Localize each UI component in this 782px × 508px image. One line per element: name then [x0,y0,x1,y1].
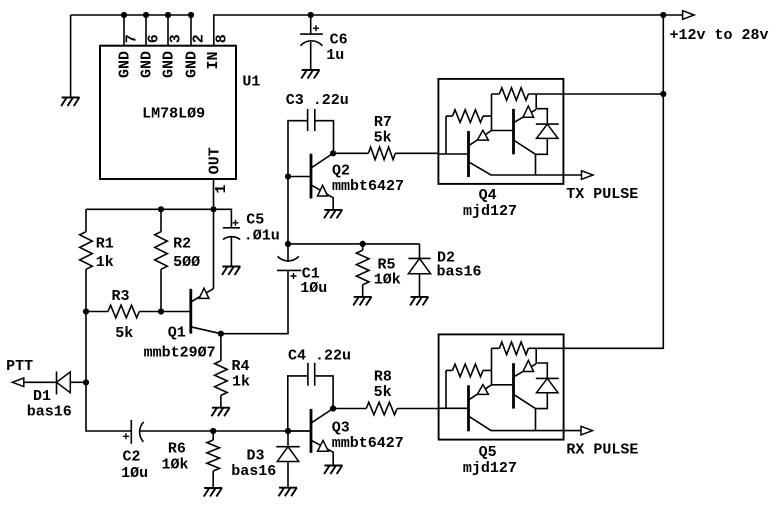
arrow PTT input [12,378,23,387]
wire emitter node to diode top (Q4) [536,109,547,124]
junction +12v right rail tap [660,12,666,18]
wire diode bottom lead (Q4) [536,138,548,154]
junction R5 top [360,241,366,247]
capacitor C5 polarity + [233,220,239,226]
resistor base-emitter internal (Q5) [446,364,492,377]
svg-text:mmbt6427: mmbt6427 [332,178,404,195]
wire C5 bottom lead [230,236,232,267]
wire U1 pin2 stub [190,15,192,46]
op-amp U1 LM78L09 box [100,46,236,179]
emitter arrow Q1 [199,288,209,298]
svg-text:R4: R4 [232,358,250,375]
resistor R4 [215,334,228,408]
transistor Q3 bar [310,409,313,453]
emitter arrow Q2 [318,185,328,196]
svg-text:R1: R1 [96,235,114,252]
svg-text:GND: GND [161,51,178,78]
diode D2 triangle [408,258,430,273]
svg-text:bas16: bas16 [27,404,72,421]
svg-text:mjd127: mjd127 [463,203,517,220]
wire C2 to R6 node [139,430,213,432]
wire T2 emitter node up to resistor (Q5) [535,348,537,363]
svg-text:5k: 5k [374,384,392,401]
wire Q1 emitter [191,289,214,302]
wire U1 pin7 stub [123,15,125,46]
svg-text:TX PULSE: TX PULSE [566,186,638,203]
resistor base-emitter internal (Q4) [446,110,492,123]
wire C3 left lead [288,121,308,177]
diode internal triangle (Q4) [537,124,559,138]
svg-text:5k: 5k [115,325,133,342]
wire C6 top lead [310,15,312,34]
diode D1 triangle [57,372,71,393]
svg-text:U1: U1 [242,74,260,91]
svg-text:+12v to 28v: +12v to 28v [670,27,769,44]
wire T2 collector (Q5) [514,394,536,430]
capacitor C6 curved plate [301,41,323,46]
svg-text:bas16: bas16 [437,263,482,280]
emitter arrow T1 (Q5) [477,385,488,395]
resistor R3 [86,305,161,318]
transistor T2 bar (Q4) [512,109,515,154]
wire internal node vertical (Q4) [491,94,493,131]
svg-text:RX PULSE: RX PULSE [566,441,638,458]
svg-text:C2: C2 [123,449,141,466]
junction C1 top node [285,241,291,247]
resistor R1 [80,209,93,311]
wire D2 leads [419,244,421,297]
svg-text:R2: R2 [173,235,191,252]
wire OUT node to R1 R2 C5 [86,209,231,228]
junction C6 tap [308,12,314,18]
ground G6 (D3) [279,487,297,489]
resistor emitter internal (Q4) [492,88,529,101]
svg-text:7: 7 [123,34,140,43]
wire T2 emitter node up to resistor (Q4) [535,94,537,109]
ground G2 (C6) [302,69,320,71]
wire Q2 collector [311,153,333,168]
emitter arrow T1 (Q4) [477,130,488,140]
wire Q3 emitter [311,440,333,465]
arrow RX PULSE output [581,426,593,435]
wire input to T1 base (Q5) [439,407,469,409]
svg-text:R6: R6 [168,440,186,457]
wire ground rail top-left [71,14,191,16]
wire C3 right lead [315,121,334,154]
junction Q1 collector node [218,331,224,337]
wire emitter node to diode top (Q5) [536,363,547,378]
svg-text:mmbt29Ø7: mmbt29Ø7 [144,345,216,362]
svg-text:1Øk: 1Øk [162,456,189,473]
junction pin7 rail [121,12,127,18]
wire C1 top lead [287,244,289,262]
resistor R6 [207,431,220,488]
wire T2 base (Q5) [492,384,514,386]
ground G4 (R4) [212,407,230,409]
wire C1 node to R5 D2 [288,243,420,245]
emitter arrow T2 (Q4) [523,106,534,117]
junction pin2 rail [188,12,194,18]
svg-text:5ØØ: 5ØØ [173,254,200,271]
wire U1 pin6 stub [145,15,147,46]
wire T1 emitter (Q4) [469,131,492,146]
wire Q1 base [161,311,191,313]
ground G1 (input common) [62,97,80,99]
svg-text:GND: GND [117,51,134,78]
wire C6 bottom lead [310,42,312,70]
svg-text:GND: GND [139,51,156,78]
wire T2 emitter (Q5) [513,364,536,377]
wire T1 collector to output (Q4) [469,162,582,175]
svg-text:1Øk: 1Øk [374,272,401,289]
wire left ground drop [70,15,72,98]
arrow TX PULSE output [582,171,594,180]
junction R6 top [210,428,216,434]
wire T2 collector (Q4) [514,140,536,175]
junction pin3 rail [165,12,171,18]
resistor emitter internal (Q5) [492,342,529,355]
svg-text:Q1: Q1 [168,324,186,341]
svg-text:1: 1 [213,184,230,193]
ground G10 (Q3 emitter) [325,465,343,467]
junction Q2 collector node [330,150,336,156]
junction Q2 base node [285,173,291,179]
junction pin6 rail [143,12,149,18]
wire Q3 base [288,430,311,432]
diode D3 cathode bar [276,446,299,448]
resistor R2 [155,209,168,311]
wire left vertical R1-D1-C2 [86,312,131,432]
ground G3 (C5) [222,266,240,268]
svg-text:bas16: bas16 [231,463,276,480]
wire Q5 supply to rail [528,347,563,349]
wire input to T1 base (Q4) [439,153,469,155]
wire C4 left lead [288,376,308,431]
svg-text:1Øu: 1Øu [300,280,327,297]
junction R2 bottom node [158,308,164,314]
svg-text:3: 3 [167,34,184,43]
wire diode bottom lead (Q5) [536,393,548,409]
svg-text:C5: C5 [246,212,264,229]
resistor R8 [333,402,439,415]
wire U1 pin8 to +12v rail [214,15,683,46]
svg-text:1Øu: 1Øu [121,465,148,482]
junction R2 top [158,206,164,212]
ground G5 (R6) [204,487,222,489]
wire R6 node to D3 node [213,430,311,432]
wire D1 to node [70,381,86,383]
svg-text:1k: 1k [232,373,250,390]
capacitor C5 plate+ [223,227,240,229]
capacitor C1 polarity + [291,273,297,279]
junction D1 node [83,379,89,385]
diode D2 cathode bar [408,257,430,259]
wire C4 right lead [315,376,333,409]
transistor Q1 bar [189,289,192,334]
transistor T2 bar (Q5) [512,363,515,408]
capacitor C5 curved plate [223,237,240,240]
junction R1 bottom node [83,308,89,314]
capacitor C6 plate+ [300,33,323,35]
transistor Q4 box [438,79,563,184]
transistor T1 bar (Q4) [467,131,470,177]
svg-text:Q5: Q5 [479,444,497,461]
svg-text:OUT: OUT [207,147,224,174]
wire Q3 collector [311,409,333,424]
diode internal cathode bar (Q5) [536,377,559,379]
svg-text:C6: C6 [330,32,348,49]
wire Q2 emitter [311,185,333,210]
ground G7 (Q2 emitter) [324,209,342,211]
wire T2 emitter (Q4) [513,109,536,122]
svg-text:5k: 5k [374,130,392,147]
wire Q1 collector [191,327,221,334]
capacitor C4 plates [308,363,315,386]
wire T2 base (Q4) [492,130,514,132]
junction Q4 supply tap [660,91,666,97]
svg-text:PTT: PTT [6,358,33,375]
capacitor C2 plate+ [130,420,132,444]
emitter arrow T2 (Q5) [523,360,534,371]
wire C1 bottom lead to Q1 collector [221,270,288,333]
wire input branch to base resistor (Q5) [445,370,447,408]
capacitor C6 polarity + [313,25,319,31]
svg-text:IN: IN [205,51,222,69]
transistor T1 bar (Q5) [467,385,470,431]
wire Q2 base node down to C1 [287,177,289,244]
ground G8 (R5) [354,296,372,298]
svg-text:8: 8 [213,34,230,43]
wire internal node vertical (Q5) [491,348,493,385]
resistor R5 [356,244,369,297]
capacitor C2 curved plate [140,422,144,442]
svg-text:D1: D1 [33,388,51,405]
svg-text:mmbt6427: mmbt6427 [332,435,404,452]
wire U1 OUT down to Q1 emitter [213,179,215,289]
capacitor C2 polarity + [123,433,129,439]
wire +12v rail down to Q5 [564,15,664,348]
resistor R7 [333,147,438,160]
capacitor C1 curved plate [278,256,299,261]
svg-text:1k: 1k [96,254,114,271]
wire T1 emitter (Q5) [469,385,492,400]
capacitor C1 plate+ [277,269,301,271]
svg-text:R3: R3 [112,288,130,305]
svg-text:GND: GND [184,51,201,78]
diode D1 cathode bar [56,371,58,394]
junction OUT node [210,206,216,212]
svg-text:C4 .22u: C4 .22u [288,348,351,365]
emitter arrow Q3 [318,440,329,451]
arrow +12v supply [683,11,695,20]
svg-text:D3: D3 [247,448,265,465]
diode internal triangle (Q5) [537,378,559,392]
svg-text:6: 6 [145,34,162,43]
svg-text:Q4: Q4 [479,187,497,204]
transistor Q2 bar [310,154,313,199]
diode internal cathode bar (Q4) [536,123,559,125]
svg-text:LM78LØ9: LM78LØ9 [142,105,205,122]
svg-text:.Ø1u: .Ø1u [244,228,280,245]
wire Q4 supply to rail [528,93,663,95]
ground G9 (D2) [411,296,429,298]
wire input branch to base resistor (Q4) [445,116,447,154]
junction D3 node [285,428,291,434]
svg-text:C3 .22u: C3 .22u [286,92,349,109]
wire T1 collector to output (Q5) [469,416,582,431]
svg-text:R7: R7 [374,114,392,131]
wire PTT to D1 [24,381,57,383]
junction Q3 collector node [330,405,336,411]
capacitor C3 plates [308,109,315,131]
wire Q2 base [288,176,311,178]
svg-text:1u: 1u [326,47,344,64]
svg-text:2: 2 [190,34,207,43]
transistor Q5 box [439,334,564,439]
wire U1 pin3 stub [167,15,169,46]
svg-text:mjd127: mjd127 [463,460,517,477]
diode D3 triangle [277,447,299,462]
wire D3 leads [287,431,289,488]
